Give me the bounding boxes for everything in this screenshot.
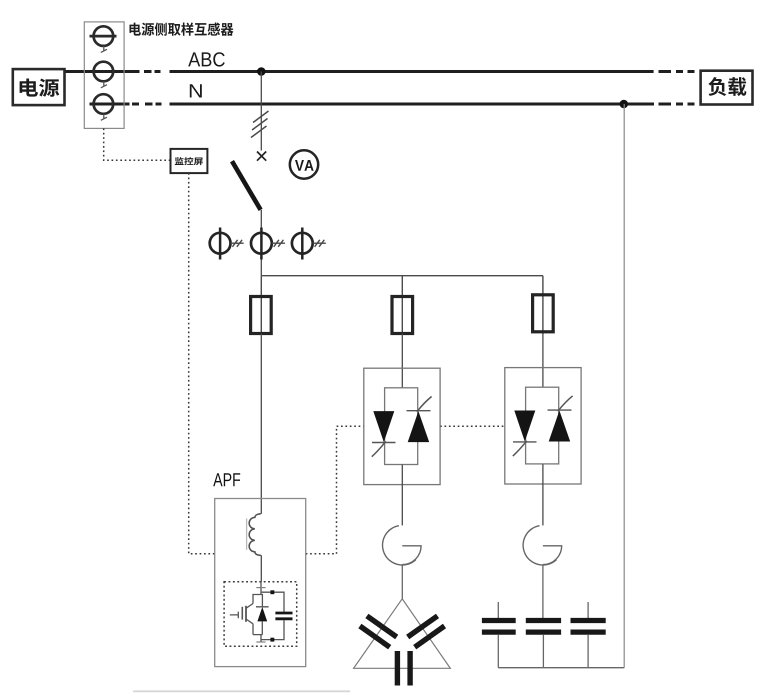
- contactor KM2: [523, 526, 562, 565]
- wire: KM1 to delta bank: [401, 565, 403, 600]
- inverter cell dashed box: [224, 582, 297, 647]
- fixed contact x: [257, 152, 266, 161]
- wire: module 2 to contactor KM2: [542, 464, 544, 525]
- node on N bus (load side): [620, 100, 629, 109]
- wire: KM2 to capacitor bank: [542, 565, 544, 618]
- CT TA2a: [210, 228, 244, 260]
- load box 负载: [701, 71, 753, 105]
- wire: bus to fuse FU1: [260, 276, 262, 334]
- capacitor C3 stub: [587, 602, 589, 618]
- thyristor module 2 (anti-parallel SCR pair): [505, 368, 581, 484]
- drawout isolator hatch marks: [251, 111, 269, 138]
- CT TA2c: [292, 228, 326, 260]
- thyristor module 1 (anti-parallel SCR pair): [364, 368, 440, 484]
- dotted control wire: APF to thyristor module 1: [306, 426, 364, 554]
- dotted control wire: monitor to APF: [189, 173, 215, 554]
- capacitor C1 stub: [497, 602, 499, 618]
- wire: N return (load side): [623, 104, 625, 668]
- inverter cell internals (IGBT + diode + DC cap): [230, 582, 293, 642]
- wire: blade to bus bar: [260, 210, 262, 276]
- fuse FU2: [392, 297, 413, 334]
- label 电源侧取样互感器: [129, 23, 233, 36]
- delta capacitor bottom: [397, 651, 410, 686]
- wire: inductor to inverter cell: [260, 555, 262, 582]
- wire: FU3 to module 2: [542, 334, 544, 388]
- wire: FU2 to module 1: [401, 334, 403, 388]
- capacitor C3 plates: [571, 621, 606, 633]
- capacitor C1 plates: [482, 621, 516, 633]
- label APF: [213, 473, 240, 486]
- capacitor C2 plates: [526, 621, 561, 633]
- inductor core line: [246, 519, 248, 550]
- delta frame (reactor-capacitor bank): [354, 599, 451, 669]
- inductor L (APF): [249, 514, 261, 556]
- meter VA: [290, 150, 318, 178]
- node on ABC bus: [257, 67, 266, 76]
- wire: capacitor common bar: [498, 667, 624, 669]
- CT TA2b: [251, 228, 285, 260]
- delta capacitor upper-left: [360, 616, 397, 647]
- label ABC: [188, 52, 225, 66]
- wire: distribution bus bar: [261, 275, 543, 277]
- delta capacitor upper-right: [408, 616, 445, 647]
- wire: bus to fuse FU2: [401, 276, 403, 334]
- contactor KM1: [383, 526, 422, 565]
- wire: module 1 to contactor KM1: [401, 465, 403, 526]
- wire: N bus: [90, 103, 695, 106]
- wire: FU1 to APF inductor: [260, 334, 262, 514]
- monitor box 监控屏: [171, 149, 208, 173]
- wire: capacitor legs to common bar: [498, 635, 588, 668]
- fuse FU1: [251, 297, 272, 334]
- wire: feeder drop from ABC node: [260, 72, 262, 151]
- label N: [190, 84, 202, 97]
- scan artifact: faint caption remnant: [133, 690, 350, 692]
- wire: bus to fuse FU3: [542, 276, 544, 334]
- source box 电源: [13, 69, 65, 105]
- fuse FU3: [533, 295, 554, 332]
- CT TA phase B (on ABC bus): [94, 62, 114, 88]
- breaker blade QF: [232, 161, 261, 210]
- dotted control wire: module 1 to module 2: [440, 425, 506, 427]
- CT TA neutral (on N bus): [94, 94, 114, 120]
- CT sampling transformer box: [84, 22, 124, 128]
- wire: ABC bus: [64, 70, 695, 73]
- dotted control wire: CT box to monitor: [104, 128, 171, 160]
- CT TA phase A: [90, 26, 117, 52]
- APF box: [215, 499, 306, 667]
